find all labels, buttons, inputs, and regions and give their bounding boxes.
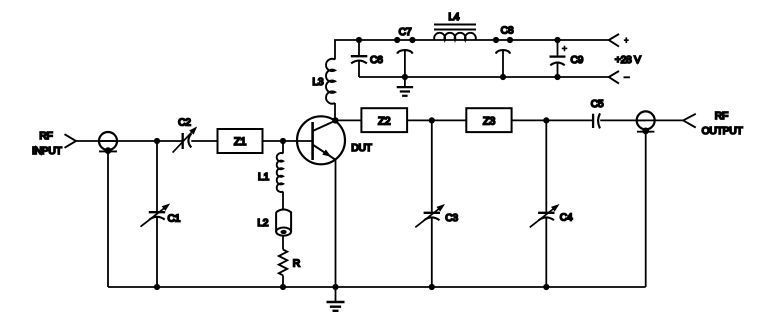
wire filter bottom rail: [359, 76, 609, 78]
capacitor C1 (variable): [149, 211, 165, 213]
capacitor C6: [358, 40, 360, 56]
junction dot emitter-rail: [332, 284, 338, 290]
network Z3: [466, 108, 511, 132]
inductor L1: [277, 153, 283, 192]
junction dot C7-bottom: [402, 74, 408, 80]
junction node E: [543, 117, 549, 123]
svg-text:Z2: Z2: [378, 115, 390, 127]
junction node B (base): [280, 138, 286, 144]
svg-text:C4: C4: [560, 213, 573, 224]
capacitor C4 (variable): [538, 212, 554, 214]
svg-text:RF: RF: [39, 131, 52, 142]
junction dot C8-bottom: [500, 74, 506, 80]
junction dot C9-top: [554, 37, 560, 43]
junction dot C9-bottom: [554, 74, 560, 80]
wire Z1 to node B: [263, 140, 313, 142]
junction dot C1-rail: [154, 284, 160, 290]
junction dots C8 taps: [493, 37, 499, 43]
svg-text:C7: C7: [399, 27, 412, 38]
capacitor C9 (electrolytic): [557, 40, 559, 57]
wire bottom rail (ground bus): [108, 286, 646, 288]
capacitor C7 (feedthrough): [397, 50, 412, 54]
wire Z2 to Z3: [407, 119, 466, 121]
wire J2 shield down: [645, 132, 647, 287]
wire node A down to C1: [156, 141, 158, 212]
junction node D: [429, 117, 435, 123]
svg-text:RF: RF: [715, 111, 728, 122]
junction node C (collector): [332, 117, 338, 123]
wire R to bottom rail: [282, 275, 284, 287]
wire C2 to Z1: [191, 140, 217, 142]
connector RF output arrowhead: [683, 114, 696, 128]
svg-text:L2: L2: [257, 218, 268, 229]
junction dot J1 shield: [105, 147, 112, 154]
wire C1 to bottom rail: [156, 217, 158, 287]
ferrite bead L2: [276, 209, 291, 231]
svg-text:+28 V: +28 V: [615, 55, 641, 66]
capacitor C3 (variable): [424, 212, 440, 214]
svg-text:OUTPUT: OUTPUT: [702, 126, 744, 137]
wire collector up: [334, 103, 336, 120]
ground (C7): [404, 77, 406, 87]
wire J2 to output arrow: [637, 119, 684, 121]
wire L1 to L2: [282, 192, 284, 211]
wire Z3 to C5: [512, 119, 593, 121]
inductor L4: [434, 33, 476, 40]
junction dots C7 taps: [394, 37, 400, 43]
wire C4 to bottom rail: [545, 218, 547, 288]
capacitor C2 (variable): [182, 133, 184, 149]
svg-text:C2: C2: [178, 117, 191, 128]
junction dot C3-rail: [429, 284, 435, 290]
svg-text:L4: L4: [448, 12, 459, 23]
junction dot C6-top: [356, 37, 362, 43]
wire L3 to top rail: [335, 40, 359, 60]
ground (main): [335, 287, 337, 302]
svg-text:C6: C6: [370, 55, 383, 66]
svg-text:R: R: [293, 258, 300, 269]
wire collector to Z2: [335, 119, 361, 121]
coax connector J2 (output): [637, 111, 655, 129]
svg-text:C3: C3: [445, 213, 458, 224]
svg-text:Z1: Z1: [234, 136, 246, 148]
network Z2: [361, 108, 407, 132]
wire C5 to J2: [600, 119, 646, 121]
wire J1 shield down: [107, 151, 109, 287]
svg-text:C8: C8: [501, 26, 514, 37]
transistor DUT (Q1): [297, 116, 345, 164]
capacitor C5: [592, 114, 594, 128]
connector RF input arrowhead: [65, 134, 77, 148]
wire L2 to R: [282, 236, 284, 250]
wire node D down: [431, 120, 433, 212]
wire node E down: [545, 120, 547, 212]
svg-text:L1: L1: [258, 172, 269, 183]
inductor L3: [326, 59, 335, 104]
wire node B to L1: [282, 141, 284, 154]
svg-text:INPUT: INPUT: [32, 146, 63, 157]
coax connector J1 (input): [99, 132, 117, 150]
resistor R: [279, 250, 287, 276]
junction node A: [154, 138, 160, 144]
svg-text:L3: L3: [312, 77, 323, 88]
junction dot R-rail: [280, 284, 286, 290]
svg-text:C5: C5: [591, 99, 604, 110]
wire emitter down: [335, 160, 337, 287]
wire C3 to bottom rail: [431, 218, 433, 288]
svg-text:Z3: Z3: [483, 115, 495, 127]
capacitor C8 (feedthrough): [496, 50, 510, 54]
wire top rail (+28V feed): [359, 39, 609, 41]
junction dot J2 shield: [642, 127, 649, 134]
terminal +28V negative: [609, 71, 619, 84]
svg-text:C1: C1: [168, 214, 181, 225]
wire input to J1: [76, 140, 117, 142]
svg-text:C9: C9: [571, 55, 584, 66]
wire J1 to node A: [99, 140, 183, 142]
terminal +28V positive: [609, 34, 619, 47]
svg-text:DUT: DUT: [351, 143, 372, 154]
junction dot C4-rail: [543, 284, 549, 290]
network Z1: [218, 129, 263, 153]
